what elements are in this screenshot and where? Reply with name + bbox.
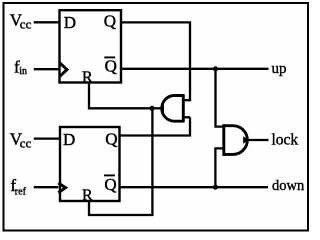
node fin bbox=[14, 57, 27, 77]
wire Qbar (U2) to down bbox=[120, 186, 269, 188]
svg-text:Q: Q bbox=[105, 57, 117, 76]
wire down junction to G2 bottom input bbox=[215, 148, 223, 187]
node Vcc (bottom) bbox=[10, 129, 32, 150]
D flip-flop U1 (top) bbox=[60, 10, 122, 82]
wire fin to clock (U1) bbox=[34, 68, 60, 70]
svg-text:lock: lock bbox=[272, 131, 299, 148]
junction reset node bbox=[150, 106, 155, 111]
wire Vcc to D (U1) bbox=[34, 21, 60, 23]
node fref bbox=[10, 176, 26, 198]
wire Qbar (U1) to up bbox=[121, 68, 269, 70]
svg-text:Q: Q bbox=[104, 175, 116, 194]
svg-text:ref: ref bbox=[15, 187, 27, 198]
svg-text:D: D bbox=[64, 13, 76, 32]
wire R (U1) to reset node bbox=[89, 83, 152, 109]
svg-text:down: down bbox=[272, 178, 305, 194]
wire Vcc to D (U2) bbox=[34, 137, 60, 139]
wire Q (U2) to AND gate bottom input bbox=[120, 117, 191, 135]
wire G1 output to reset node bbox=[152, 107, 161, 109]
svg-text:up: up bbox=[272, 61, 287, 77]
svg-text:in: in bbox=[19, 66, 27, 77]
node Vcc (top) bbox=[10, 10, 32, 31]
wire up junction to G2 top input bbox=[216, 69, 224, 127]
svg-text:cc: cc bbox=[20, 17, 32, 32]
svg-text:Q: Q bbox=[104, 12, 116, 31]
pin label Qbar (U2) bbox=[104, 175, 117, 194]
junction on up wire bbox=[213, 66, 218, 71]
AND gate G1 (reset, mirrored) bbox=[159, 94, 184, 122]
clock wedge (U2) bbox=[58, 183, 65, 193]
AND gate G2 (lock) bbox=[224, 124, 249, 156]
D flip-flop U2 (bottom) bbox=[60, 127, 120, 201]
wire G1 bottom input stub bbox=[183, 116, 190, 118]
wire reset node to R (U2) bbox=[89, 108, 152, 215]
wire G2 output to lock bbox=[247, 139, 269, 141]
svg-text:cc: cc bbox=[20, 136, 32, 151]
wire Q (U1) to AND gate top input bbox=[121, 22, 190, 100]
pin label Qbar (U1) bbox=[104, 57, 117, 76]
junction on down wire bbox=[213, 185, 218, 190]
svg-text:Q: Q bbox=[105, 129, 117, 148]
svg-text:R: R bbox=[82, 187, 93, 204]
svg-text:D: D bbox=[63, 130, 75, 149]
wire fref to clock (U2) bbox=[34, 186, 59, 188]
clock wedge (U1) bbox=[59, 63, 67, 77]
svg-text:R: R bbox=[82, 69, 93, 86]
